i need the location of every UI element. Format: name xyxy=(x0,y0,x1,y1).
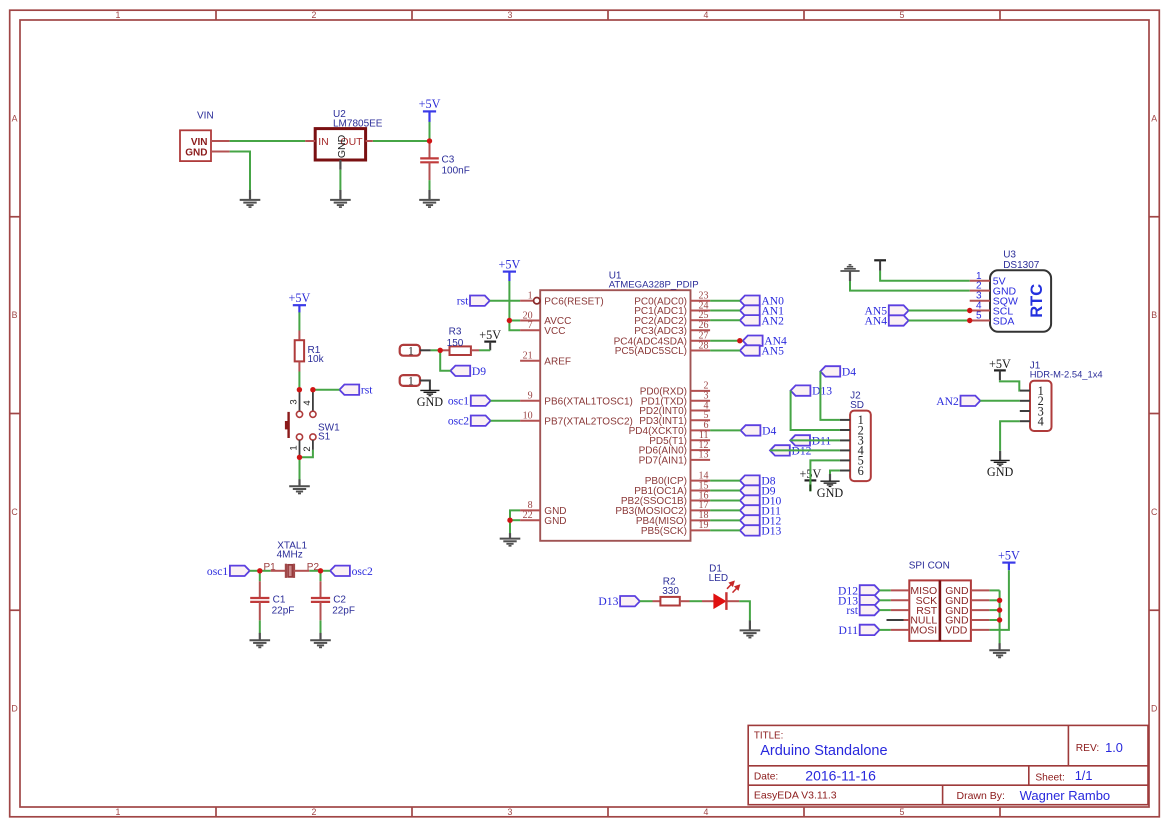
wire SW1 ground drop xyxy=(299,457,301,480)
ground (U1) xyxy=(509,533,511,539)
net flag D9 (R3) xyxy=(450,366,470,376)
junction xyxy=(737,338,742,343)
ground (U2) xyxy=(339,190,341,200)
crystal XTAL1 4MHz xyxy=(271,570,286,572)
resistor R2 330 xyxy=(653,600,661,602)
ground (VIN) xyxy=(249,190,251,200)
U1 pin 20 AVCC xyxy=(520,320,540,322)
wire C3 to ground xyxy=(429,180,431,190)
wire U1 PB2 to D10 xyxy=(710,500,740,502)
wire R3 to +5V port xyxy=(479,349,490,351)
svg-text:5: 5 xyxy=(976,311,982,322)
wire osc2 to U1 pin10 xyxy=(491,420,520,422)
svg-text:3: 3 xyxy=(289,399,300,404)
svg-text:P1: P1 xyxy=(264,562,277,573)
U1 pin 16 PB2(SSOC1B) xyxy=(691,500,711,502)
svg-text:S1: S1 xyxy=(318,431,331,442)
connector J1 HDR-M-2.54_1x4 xyxy=(1030,381,1052,431)
ground (SPI CON) xyxy=(998,643,1000,650)
svg-text:Date:: Date: xyxy=(754,772,778,783)
wire D4 to J2 pin1 xyxy=(820,371,840,420)
svg-text:SDA: SDA xyxy=(993,315,1015,327)
net flag osc1 (XTAL) xyxy=(230,566,250,576)
ground port (pad) xyxy=(420,389,439,391)
junction xyxy=(507,318,512,323)
svg-text:Sheet:: Sheet: xyxy=(1035,772,1064,783)
svg-text:C3: C3 xyxy=(442,155,455,166)
net flag osc2 (U1 pin10) xyxy=(471,416,491,426)
wire SPI GND bus xyxy=(999,590,1001,643)
svg-text:D11: D11 xyxy=(838,624,858,637)
U1 pin 9 PB6(XTAL1TOSC1) xyxy=(520,400,540,402)
svg-text:2016-11-16: 2016-11-16 xyxy=(805,767,876,783)
wire LED to ground xyxy=(739,601,750,621)
J1 pin 3 xyxy=(1020,410,1030,412)
U1 pin 15 PB1(OC1A) xyxy=(691,490,711,492)
svg-text:VDD: VDD xyxy=(945,625,968,637)
wire SPI GND row xyxy=(989,619,999,621)
net flag D12 (SPI) xyxy=(860,585,880,595)
svg-text:B: B xyxy=(12,310,18,320)
svg-text:TITLE:: TITLE: xyxy=(754,731,783,742)
svg-text:4: 4 xyxy=(704,10,709,20)
wire +5V to R1 xyxy=(298,312,300,330)
junction xyxy=(967,318,972,323)
svg-text:10k: 10k xyxy=(308,354,325,365)
svg-text:1: 1 xyxy=(528,291,533,302)
net flag D13 (J2) xyxy=(791,385,811,395)
U1 pin 24 PC1(ADC1) xyxy=(691,310,711,312)
U1 pin 3 PD1(TXD) xyxy=(691,400,711,402)
svg-text:2: 2 xyxy=(312,10,317,20)
wire SW1 to ground xyxy=(300,450,313,458)
svg-text:3: 3 xyxy=(508,10,513,20)
U1 pin 23 PC0(ADC0) xyxy=(691,300,711,302)
U1 pin 13 PD7(AIN1) xyxy=(691,459,711,461)
wire D13 to R2 xyxy=(640,600,653,602)
J2 pin 5 xyxy=(840,459,850,461)
svg-text:+5V: +5V xyxy=(998,548,1020,562)
svg-text:100nF: 100nF xyxy=(442,166,470,177)
svg-text:REV:: REV: xyxy=(1076,743,1099,754)
wire +5V rail AVCC/VCC xyxy=(509,281,520,330)
svg-text:9: 9 xyxy=(528,391,533,402)
U1 pin 8 GND xyxy=(520,509,540,511)
svg-text:PC3(ADC3): PC3(ADC3) xyxy=(634,326,687,337)
svg-text:osc1: osc1 xyxy=(207,565,228,578)
svg-text:AREF: AREF xyxy=(544,356,571,367)
svg-text:AN5: AN5 xyxy=(761,345,784,358)
svg-text:LED: LED xyxy=(709,573,728,584)
net flag AN5 (U3) xyxy=(889,305,909,315)
U1 pin 4 PD2(INT0) xyxy=(691,410,711,412)
svg-text:6: 6 xyxy=(858,464,864,478)
svg-text:osc2: osc2 xyxy=(352,565,373,578)
J1 pin 1 xyxy=(1020,390,1030,392)
svg-text:2: 2 xyxy=(302,446,313,451)
title block xyxy=(748,725,1148,804)
wire J1 pin4 to GND xyxy=(1000,421,1020,451)
regulator U2 LM7805EE xyxy=(315,129,365,160)
svg-text:13: 13 xyxy=(699,450,709,461)
svg-text:D: D xyxy=(11,704,17,714)
svg-text:rst: rst xyxy=(361,384,373,397)
net flag D11 (U1 pin17) xyxy=(740,505,760,515)
svg-text:C: C xyxy=(1151,507,1158,517)
svg-text:EasyEDA V3.11.3: EasyEDA V3.11.3 xyxy=(754,789,837,801)
svg-text:AN2: AN2 xyxy=(761,314,784,327)
svg-text:1.0: 1.0 xyxy=(1105,740,1123,755)
junction xyxy=(997,617,1002,622)
capacitor C3 xyxy=(429,143,431,158)
J2 pin 6 xyxy=(840,470,850,472)
junction xyxy=(967,308,972,313)
net flag D8 xyxy=(740,475,760,485)
U1 pin 5 PD3(INT1) xyxy=(691,419,711,421)
wire rst flag to U1 pin1 xyxy=(490,300,520,302)
resistor R3 150 xyxy=(440,349,449,351)
test pad 1 (R3 left) xyxy=(400,345,420,356)
net flag AN0 xyxy=(740,296,760,306)
svg-text:C: C xyxy=(11,507,18,517)
wire U1 PB3 to D11 xyxy=(710,509,740,511)
svg-text:22pF: 22pF xyxy=(332,605,355,616)
net flag D11 (J2) xyxy=(790,435,810,445)
switch SW1 S1 xyxy=(299,390,301,412)
svg-text:4: 4 xyxy=(1038,415,1044,429)
svg-text:AN2: AN2 xyxy=(936,395,959,408)
svg-text:VCC: VCC xyxy=(544,326,565,337)
svg-text:DS1307: DS1307 xyxy=(1003,260,1040,271)
U1 pin 19 PB5(SCK) xyxy=(691,529,711,531)
svg-text:B: B xyxy=(1151,310,1157,320)
svg-text:PD7(AIN1): PD7(AIN1) xyxy=(639,456,687,467)
svg-text:P2: P2 xyxy=(307,562,320,573)
wire SPI flag xyxy=(880,629,891,631)
net flag D13 (SPI) xyxy=(860,595,880,605)
svg-text:D: D xyxy=(1151,704,1157,714)
svg-text:150: 150 xyxy=(447,338,464,349)
junction xyxy=(257,568,262,573)
svg-text:SD: SD xyxy=(850,400,864,411)
wire D13 to J2 pin2 xyxy=(791,391,840,430)
U1 pin 2 PD0(RXD) xyxy=(691,390,711,392)
wire U1 PB0 to D8 xyxy=(710,480,740,482)
svg-text:AN4: AN4 xyxy=(865,315,888,328)
wire SPI GND row xyxy=(989,609,999,611)
wire XTAL P2 to junction xyxy=(309,570,320,572)
net flag osc1 (U1 pin9) xyxy=(471,396,491,406)
svg-text:RTC: RTC xyxy=(1028,284,1046,318)
ground port (J1 pin4) xyxy=(991,459,1010,461)
svg-text:rst: rst xyxy=(846,604,858,617)
svg-text:Drawn By:: Drawn By: xyxy=(957,790,1005,802)
wire U2 OUT to junction xyxy=(373,140,430,142)
junction xyxy=(297,387,302,392)
svg-text:D13: D13 xyxy=(761,524,781,537)
U3 pin 5 SDA xyxy=(970,320,990,322)
svg-text:VIN: VIN xyxy=(197,110,214,121)
U1 pin 11 PD5(T1) xyxy=(691,439,711,441)
U1 pin 26 PC3(ADC3) xyxy=(691,329,711,331)
RTC U3 DS1307 xyxy=(990,270,1051,332)
U1 pin 12 PD6(AIN0) xyxy=(691,449,711,451)
wire AVCC xyxy=(509,320,520,322)
net flag AN2 xyxy=(740,315,760,325)
wire C2 top xyxy=(320,571,322,582)
svg-text:PB7(XTAL2TOSC2): PB7(XTAL2TOSC2) xyxy=(544,416,633,427)
J1 gnd stem xyxy=(999,451,1001,461)
junction xyxy=(297,455,302,460)
wire R3 junction to D9 xyxy=(440,350,450,371)
junction xyxy=(438,348,443,353)
net flag D12 (U1 pin18) xyxy=(740,515,760,525)
svg-text:4MHz: 4MHz xyxy=(277,550,303,561)
wire C1 gnd xyxy=(259,620,261,633)
wire U2 GND to ground xyxy=(339,170,341,191)
svg-text:Wagner Rambo: Wagner Rambo xyxy=(1020,788,1111,803)
capacitor C2 22pF xyxy=(320,581,322,598)
junction xyxy=(427,138,432,143)
J2 pin 2 xyxy=(840,429,850,431)
net flag AN4 (U3) xyxy=(889,315,909,325)
svg-text:MOSI: MOSI xyxy=(910,625,937,637)
svg-text:LM7805EE: LM7805EE xyxy=(333,119,383,130)
svg-text:Arduino Standalone: Arduino Standalone xyxy=(760,743,887,759)
wire SPI flag xyxy=(880,609,891,611)
svg-text:1: 1 xyxy=(289,445,300,450)
net flag D13 (U1 pin19) xyxy=(740,525,760,535)
ground (C2) xyxy=(319,633,321,640)
svg-text:GND: GND xyxy=(185,147,207,158)
junction xyxy=(997,607,1002,612)
svg-text:7: 7 xyxy=(528,320,533,331)
connector J2 SD xyxy=(850,411,871,482)
net flag rst (SW1) xyxy=(339,385,359,395)
svg-text:R3: R3 xyxy=(449,327,462,338)
ground (C3) xyxy=(428,190,430,200)
wire AN5 to U3 SCL xyxy=(909,310,970,312)
wire U1 PB4 to D12 xyxy=(710,519,740,521)
svg-text:GND: GND xyxy=(817,486,844,500)
ground (D1) xyxy=(749,621,751,631)
U3 pin 3 SQW xyxy=(970,300,990,302)
wire junction to rst flag xyxy=(313,389,340,391)
svg-text:IN: IN xyxy=(318,136,329,148)
net flag D11 (SPI) xyxy=(860,625,880,635)
J1 pin 4 xyxy=(1020,420,1030,422)
svg-text:5: 5 xyxy=(900,807,905,817)
ground flipped (U3 pin2) xyxy=(849,271,851,281)
connector VIN xyxy=(180,130,211,161)
wire SPI GND row xyxy=(989,589,999,591)
svg-text:+5V: +5V xyxy=(499,257,521,271)
U1 pin 17 PB3(MOSIOC2) xyxy=(691,509,711,511)
svg-text:GND: GND xyxy=(336,134,348,158)
junction xyxy=(318,568,323,573)
wire osc1 to U1 pin9 xyxy=(491,400,520,402)
wire U1 PB5 to D13 xyxy=(710,529,740,531)
wire J2 pin5 to +5V xyxy=(810,460,840,491)
svg-text:21: 21 xyxy=(523,351,533,362)
svg-text:+5V: +5V xyxy=(289,291,311,305)
net flag osc2 (XTAL) xyxy=(330,566,350,576)
J1 pin 2 xyxy=(1020,400,1030,402)
net flag AN2 (J1) xyxy=(961,396,981,406)
net flag D4 (U1 pin6) xyxy=(741,425,761,435)
svg-text:5: 5 xyxy=(900,10,905,20)
svg-text:4: 4 xyxy=(704,807,709,817)
svg-text:D13: D13 xyxy=(598,595,618,608)
svg-text:D4: D4 xyxy=(842,365,856,378)
wire SPI flag xyxy=(880,589,891,591)
wire C2 gnd xyxy=(320,620,322,633)
ground (C1) xyxy=(259,633,261,640)
U1 pin 21 AREF xyxy=(520,360,540,362)
wire XTAL P1 stub xyxy=(260,570,271,572)
test pad 1 (GND) xyxy=(400,375,420,386)
net flag D12 (J2) xyxy=(770,445,790,455)
svg-text:10: 10 xyxy=(523,411,533,422)
wire U1 PC1 to AN1 xyxy=(710,310,740,312)
wire U1 PC0 to AN0 xyxy=(710,300,740,302)
svg-text:C1: C1 xyxy=(273,595,286,606)
svg-text:22pF: 22pF xyxy=(272,605,295,616)
svg-text:D9: D9 xyxy=(472,365,486,378)
J2 pin 1 xyxy=(840,419,850,421)
svg-text:VIN: VIN xyxy=(191,137,208,148)
net flag D13 (R2) xyxy=(620,596,640,606)
net flag D4 (J2) xyxy=(820,366,840,376)
U1 pin 27 PC4(ADC4SDA) xyxy=(691,340,711,342)
svg-text:A: A xyxy=(1151,114,1157,124)
svg-text:A: A xyxy=(12,114,18,124)
svg-text:D4: D4 xyxy=(762,424,776,437)
svg-text:1/1: 1/1 xyxy=(1075,768,1093,783)
junction xyxy=(507,518,512,523)
+5V stem overdraw (J2) xyxy=(809,485,811,492)
svg-text:1: 1 xyxy=(408,345,414,357)
svg-text:19: 19 xyxy=(699,520,709,531)
U1 pin 28 PC5(ADC5SCL) xyxy=(691,350,711,352)
wire U3 pin2 GND xyxy=(850,281,970,291)
junction xyxy=(997,598,1002,603)
wire VIN GND down xyxy=(230,152,250,191)
svg-text:28: 28 xyxy=(699,340,709,351)
net flag D10 xyxy=(740,495,760,505)
wire U3 pin1 5V xyxy=(880,271,970,281)
wire R1 to junction xyxy=(298,372,300,390)
svg-text:PB5(SCK): PB5(SCK) xyxy=(641,526,687,537)
svg-text:4: 4 xyxy=(302,400,313,405)
svg-text:1: 1 xyxy=(116,807,121,817)
svg-text:C2: C2 xyxy=(333,595,346,606)
wire U1 GND pin22 xyxy=(510,519,520,521)
svg-text:ATMEGA328P_PDIP: ATMEGA328P_PDIP xyxy=(609,279,699,290)
U1 pin 14 PB0(ICP) xyxy=(691,480,711,482)
wire U1 PC4 to AN4 xyxy=(710,340,743,342)
net flag rst (U1 pin1) xyxy=(470,296,490,306)
net port +5V (U3 pin1) xyxy=(874,259,886,261)
wire +5V to J1 pin1 xyxy=(1000,380,1020,390)
wire AN4 to U3 SDA xyxy=(909,320,970,322)
wire C1 top xyxy=(259,571,261,582)
svg-text:GND: GND xyxy=(417,395,444,409)
wire U1 PB1 to D9 xyxy=(710,490,740,492)
wire VIN to U2 IN xyxy=(230,140,306,142)
svg-text:26: 26 xyxy=(699,320,709,331)
wire junction to osc2 xyxy=(321,570,331,572)
U3 pin 1 5V xyxy=(970,280,990,282)
net flag D9 (U1 pin15) xyxy=(740,485,760,495)
wire AN2 to J1 pin2 xyxy=(980,400,1020,402)
svg-text:SPI CON: SPI CON xyxy=(909,561,950,572)
svg-text:3: 3 xyxy=(508,807,513,817)
svg-text:PB6(XTAL1TOSC1): PB6(XTAL1TOSC1) xyxy=(544,396,633,407)
wire pad to R3 xyxy=(431,349,441,351)
junction xyxy=(310,387,315,392)
J2 pin 4 xyxy=(840,449,850,451)
wire +5V into junction xyxy=(429,122,431,141)
svg-text:PC5(ADC5SCL): PC5(ADC5SCL) xyxy=(615,346,687,357)
U1 pin 18 PB4(MISO) xyxy=(691,519,711,521)
U1 pin 7 VCC xyxy=(520,329,540,331)
wire U1 PD4 to D4 xyxy=(710,429,741,431)
U1 pin 10 PB7(XTAL2TOSC2) xyxy=(520,420,540,422)
U1 pin 1 PC6(RESET) xyxy=(520,300,533,302)
svg-text:GND: GND xyxy=(987,465,1014,479)
svg-text:rst: rst xyxy=(457,295,469,308)
svg-text:330: 330 xyxy=(662,586,679,597)
wire D11 to J2 pin3 xyxy=(790,439,840,441)
svg-text:PC6(RESET): PC6(RESET) xyxy=(544,296,603,307)
wire SPI GND row xyxy=(989,599,999,601)
net flag AN1 xyxy=(740,305,760,315)
J2 pin 3 xyxy=(840,439,850,441)
LED D1 xyxy=(702,600,714,602)
net flag rst (SPI) xyxy=(860,605,880,615)
svg-text:2: 2 xyxy=(312,807,317,817)
svg-text:+5V: +5V xyxy=(989,357,1011,371)
wire U1 PC5 to AN5 xyxy=(710,350,740,352)
wire R2 to LED xyxy=(690,600,703,602)
wire SPI flag xyxy=(880,599,891,601)
svg-text:22: 22 xyxy=(523,510,533,521)
U1 pin 6 PD4(XCKT0) xyxy=(691,429,711,431)
ground (SW1) xyxy=(298,479,300,486)
wire U1 PC2 to AN2 xyxy=(710,319,740,321)
resistor R1 10k xyxy=(298,331,300,341)
wire D12 to J2 pin4 xyxy=(770,449,840,451)
net flag AN4 xyxy=(743,336,763,346)
net flag AN5 xyxy=(740,345,760,355)
U1 pin 22 GND xyxy=(520,519,540,521)
svg-text:+5V: +5V xyxy=(479,328,501,342)
U3 pin 2 GND xyxy=(970,290,990,292)
capacitor C1 22pF xyxy=(259,581,261,598)
svg-text:GND: GND xyxy=(544,516,566,527)
svg-text:D13: D13 xyxy=(812,385,832,398)
ground port (J2 pin6) xyxy=(829,474,831,481)
wire osc1 to XTAL junction xyxy=(250,570,260,572)
svg-text:osc2: osc2 xyxy=(448,415,469,428)
U1 pin 25 PC2(ADC2) xyxy=(691,319,711,321)
U3 pin 4 SCL xyxy=(970,310,990,312)
svg-text:1: 1 xyxy=(408,376,414,388)
IC U1 ATMEGA328P_PDIP xyxy=(540,290,690,541)
wire J2 pin6 to GND xyxy=(830,471,840,475)
svg-text:osc1: osc1 xyxy=(448,395,469,408)
